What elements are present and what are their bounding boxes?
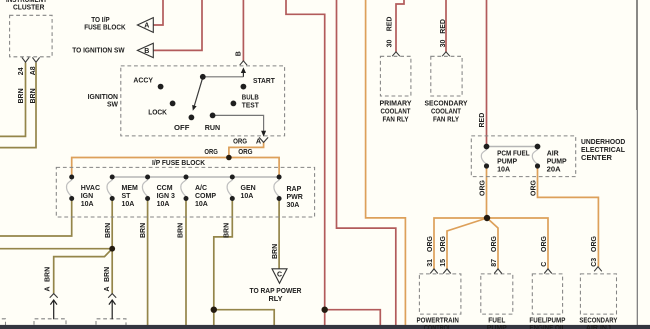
svg-text:ORG: ORG — [204, 147, 218, 156]
svg-text:ACCY: ACCY — [133, 75, 153, 84]
svg-text:C3: C3 — [591, 258, 598, 267]
svg-text:ST: ST — [122, 193, 132, 200]
svg-text:CLUSTER: CLUSTER — [13, 3, 45, 12]
svg-text:PWR: PWR — [287, 194, 303, 201]
svg-text:PUMP: PUMP — [487, 323, 507, 329]
svg-text:ORG: ORG — [440, 236, 447, 253]
svg-text:MEM: MEM — [122, 185, 139, 192]
svg-text:10A: 10A — [81, 201, 94, 208]
svg-text:B: B — [235, 51, 242, 56]
svg-text:FAN RLY: FAN RLY — [383, 115, 409, 124]
svg-text:ORG: ORG — [491, 236, 498, 253]
svg-text:AIR INJ: AIR INJ — [586, 323, 611, 329]
svg-text:ENGINE OIL: ENGINE OIL — [529, 323, 566, 329]
svg-text:ORG: ORG — [427, 236, 434, 253]
svg-text:FAN RLY: FAN RLY — [433, 115, 459, 124]
svg-text:10A: 10A — [195, 201, 208, 208]
svg-text:RLY: RLY — [269, 294, 283, 303]
svg-text:31: 31 — [427, 259, 434, 267]
svg-text:I/P FUSE BLOCK: I/P FUSE BLOCK — [152, 158, 206, 167]
svg-text:24: 24 — [18, 67, 25, 75]
svg-text:A8: A8 — [30, 66, 37, 75]
svg-text:A/C: A/C — [195, 185, 207, 192]
svg-text:BRN: BRN — [272, 244, 279, 259]
svg-text:BRN: BRN — [45, 267, 52, 282]
svg-text:10A: 10A — [157, 201, 170, 208]
svg-text:IGN 3: IGN 3 — [157, 193, 175, 200]
svg-text:START: START — [253, 76, 275, 85]
svg-text:A: A — [144, 22, 149, 29]
svg-text:RAP: RAP — [287, 186, 302, 193]
svg-text:15: 15 — [440, 259, 447, 267]
svg-text:IGN: IGN — [81, 193, 93, 200]
svg-text:BRN: BRN — [18, 88, 25, 103]
svg-text:RED: RED — [479, 113, 486, 128]
svg-text:OFF: OFF — [174, 123, 190, 132]
svg-text:A: A — [256, 137, 261, 146]
svg-text:BRN: BRN — [223, 223, 230, 238]
svg-text:ORG: ORG — [591, 236, 598, 253]
svg-text:CCM: CCM — [157, 185, 173, 192]
svg-text:TO IGNITION SW: TO IGNITION SW — [72, 45, 124, 54]
svg-text:BRN: BRN — [140, 223, 147, 238]
svg-text:10A: 10A — [241, 193, 254, 200]
svg-text:87: 87 — [491, 259, 498, 267]
svg-text:BRN: BRN — [30, 88, 37, 103]
svg-text:ORG: ORG — [530, 180, 537, 197]
svg-text:COMP: COMP — [195, 193, 216, 200]
svg-text:RUN: RUN — [205, 123, 220, 132]
svg-text:SW: SW — [107, 100, 118, 109]
svg-text:ORG: ORG — [479, 180, 486, 197]
svg-text:B: B — [144, 48, 149, 55]
svg-text:10A: 10A — [122, 201, 135, 208]
svg-text:20A: 20A — [547, 164, 561, 173]
svg-text:ORG: ORG — [233, 137, 247, 146]
svg-text:LOCK: LOCK — [148, 108, 168, 117]
svg-text:BRN: BRN — [105, 223, 112, 238]
svg-text:ORG: ORG — [541, 236, 548, 253]
svg-text:HVAC: HVAC — [81, 185, 100, 192]
svg-text:C: C — [541, 262, 548, 267]
svg-text:GEN: GEN — [241, 185, 256, 192]
svg-text:BRN: BRN — [177, 223, 184, 238]
svg-text:A: A — [104, 286, 111, 291]
svg-text:C: C — [277, 271, 282, 278]
svg-text:30: 30 — [387, 40, 394, 48]
svg-text:A: A — [45, 286, 52, 291]
svg-text:30A: 30A — [287, 202, 300, 209]
svg-text:TEST: TEST — [242, 100, 260, 109]
svg-text:RED: RED — [440, 19, 447, 34]
svg-text:FUSE BLOCK: FUSE BLOCK — [84, 23, 126, 32]
svg-text:BRN: BRN — [104, 267, 111, 282]
svg-text:30: 30 — [440, 40, 447, 48]
svg-text:ORG: ORG — [238, 147, 253, 156]
svg-text:CENTER: CENTER — [581, 153, 613, 162]
svg-text:10A: 10A — [497, 164, 510, 173]
svg-text:CONTROL: CONTROL — [424, 323, 452, 329]
svg-text:RED: RED — [387, 17, 394, 32]
